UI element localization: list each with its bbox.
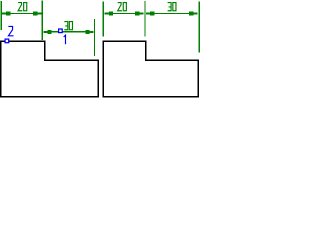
dimension 20 left: extension line 1: [0, 1, 2, 30]
grip 2 (on top edge): [5, 39, 9, 43]
grip 1 (on dim line): [59, 29, 63, 33]
dimension 20 left: dimension line: [2, 13, 42, 15]
label 2: [8, 26, 13, 35]
left part outline: [1, 41, 98, 97]
dimension 20 left: text "20": [18, 3, 27, 11]
dimension 30 left: dimension line: [43, 31, 93, 33]
dimension 20 right: left arrowhead: [105, 12, 113, 16]
dimension 30 right: extension line 3: [198, 2, 200, 53]
dimension 20 right: extension line 1: [102, 1, 104, 36]
dimension 30 left: text "30": [64, 22, 72, 30]
dimension 30 right: left arrowhead: [146, 12, 154, 16]
dimension 30 right: text "30": [168, 3, 176, 11]
dimension 30 right: dimension line: [146, 13, 198, 15]
dimension 20 right: text "20": [118, 3, 127, 11]
dimension 30 left: left arrowhead: [44, 30, 52, 34]
dimension 20 right: dimension line: [105, 13, 144, 15]
dimension 20 left: left arrowhead: [2, 12, 10, 16]
label 1: [64, 35, 66, 44]
right part outline: [103, 41, 198, 97]
dimension 20 right: extension line 2 (shared): [144, 1, 146, 37]
dimension 30 left: right arrowhead: [86, 30, 94, 34]
dimension 30 right: right arrowhead: [189, 12, 197, 16]
dimension 30 left: right extension line: [93, 19, 95, 56]
dimension 20 right: right arrowhead: [135, 12, 143, 16]
dimension 20 left: right arrowhead: [33, 12, 41, 16]
dimension 20 left: extension line 2: [41, 1, 43, 41]
